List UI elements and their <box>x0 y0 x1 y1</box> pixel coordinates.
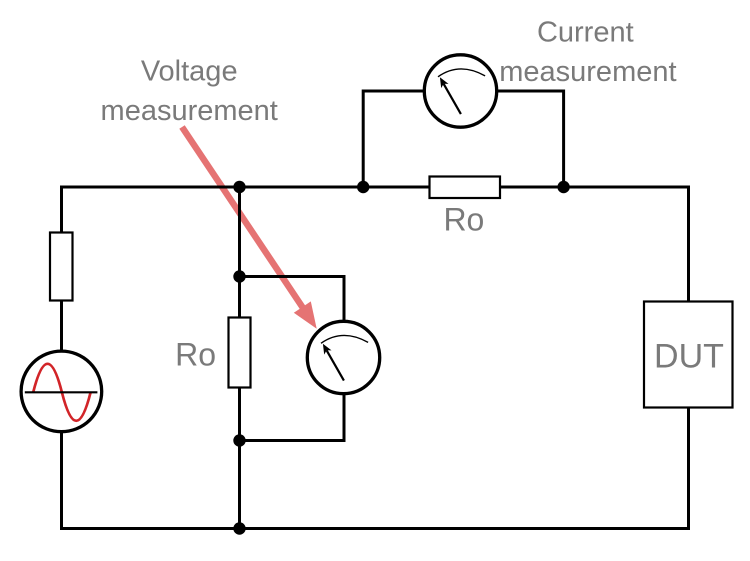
resistor (left, series with source) <box>50 233 73 301</box>
svg-text:Ro: Ro <box>175 337 216 373</box>
resistor Ro (middle vertical) <box>229 318 251 388</box>
annotation arrow (voltage measurement pointer) <box>182 127 317 329</box>
node junction (bottom rail / middle branch) <box>233 522 245 534</box>
node junction (top rail / ammeter right) <box>557 181 569 193</box>
DUT box <box>644 302 733 408</box>
node junction (top rail / ammeter left) <box>357 181 369 193</box>
AC source <box>21 351 102 432</box>
svg-text:Current: Current <box>537 16 634 48</box>
wire top rail <box>62 186 689 189</box>
wire ammeter loop <box>363 91 563 187</box>
ammeter A <box>424 55 496 127</box>
node junction (top rail / middle branch) <box>233 181 245 193</box>
svg-text:measurement: measurement <box>101 95 278 127</box>
svg-text:Ro: Ro <box>443 201 484 237</box>
svg-text:measurement: measurement <box>499 56 676 88</box>
svg-text:DUT: DUT <box>654 337 724 375</box>
node junction (middle branch / voltmeter bottom) <box>233 434 245 446</box>
wire middle branch <box>238 187 241 529</box>
wire voltmeter loop <box>240 277 345 441</box>
wire bottom rail <box>60 527 690 530</box>
wire left rail <box>60 186 63 529</box>
svg-text:Voltage: Voltage <box>141 56 238 88</box>
node junction (middle branch / voltmeter top) <box>233 270 245 282</box>
voltmeter V <box>307 321 379 393</box>
resistor Ro (top horizontal, shunt) <box>430 177 501 199</box>
wire right rail <box>687 186 690 531</box>
